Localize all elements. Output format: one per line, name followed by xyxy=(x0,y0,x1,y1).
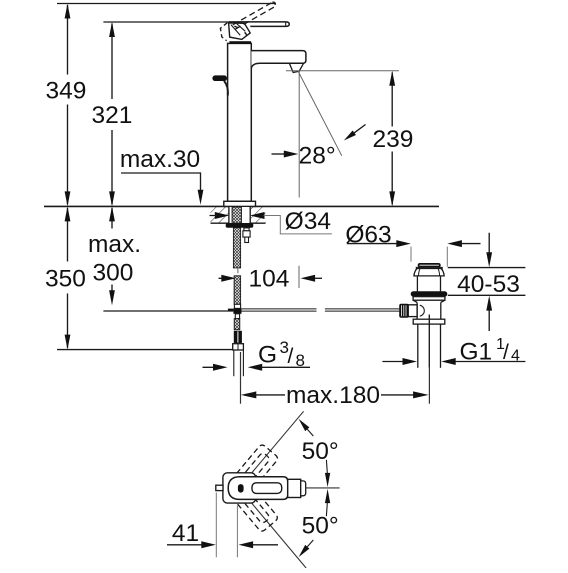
hose break centerline xyxy=(237,267,239,273)
raised socket dashed inner xyxy=(234,26,238,28)
pop-up rod left segment xyxy=(242,309,317,311)
raised socket dashed outline xyxy=(220,23,227,41)
svg-text:41: 41 xyxy=(172,520,199,547)
G38 arrows xyxy=(203,366,311,368)
ext line 239 top xyxy=(286,70,399,72)
supply pipe left wall xyxy=(233,350,235,376)
braided hose upper xyxy=(233,228,240,268)
dim 239 arrows xyxy=(389,71,395,207)
dim 104 right arrow xyxy=(314,277,322,279)
base plate xyxy=(224,201,256,206)
drain body right wall xyxy=(440,302,442,319)
drain inner rod xyxy=(428,315,430,368)
pivot housing xyxy=(408,305,417,317)
svg-text:max.30: max.30 xyxy=(120,146,200,173)
hose end block xyxy=(234,331,242,343)
stream diagonal line xyxy=(298,71,342,156)
braided hose middle xyxy=(234,276,241,305)
handle lever solid xyxy=(229,22,290,27)
angle 28 right arrow xyxy=(272,153,286,155)
spout beam xyxy=(251,51,306,68)
faucet body column xyxy=(228,43,252,201)
centerline bottom view xyxy=(306,487,340,489)
svg-text:300: 300 xyxy=(93,259,134,286)
stream vertical line xyxy=(298,72,300,289)
pivot ball arc xyxy=(420,305,425,316)
dia34 left arrow xyxy=(215,212,265,219)
diagonal 50deg upper xyxy=(239,411,304,488)
raised lever dashed top line xyxy=(233,2,272,25)
pull-rod knob xyxy=(212,75,227,81)
drain seal ring black xyxy=(411,291,448,296)
shank sleeve right line xyxy=(249,206,251,223)
angle 28 diag arrow xyxy=(354,125,365,133)
drain neck left wall xyxy=(416,276,418,292)
ext line 321 xyxy=(103,21,228,23)
drain flange taper right xyxy=(441,300,445,302)
countertop bottom line xyxy=(211,222,266,224)
shank threaded rod cross-hatch xyxy=(232,207,241,223)
countertop hatched section left xyxy=(211,207,229,223)
lever top view xyxy=(228,477,288,500)
braided hose lower xyxy=(234,319,240,330)
lower 50 arrow tail xyxy=(307,540,313,547)
lower 50 arrow at diagonal xyxy=(299,545,310,557)
dim 40-53 arrows xyxy=(486,252,492,310)
drain body left wall xyxy=(416,302,418,319)
dim 321 line xyxy=(111,24,113,205)
dim 40-53 ref lines xyxy=(448,268,526,296)
max30 underline xyxy=(121,173,201,190)
dim 41 line left xyxy=(167,544,202,546)
dashed lever rotated up xyxy=(223,443,279,503)
dia63 ext lines xyxy=(411,247,447,267)
lever tip cap line xyxy=(285,22,287,27)
countertop hatched section right xyxy=(250,207,265,223)
dia63 arrows xyxy=(396,240,462,247)
drain flange taper left xyxy=(413,300,417,302)
shank sleeve left line xyxy=(228,206,230,223)
dim 239 line xyxy=(391,73,393,205)
spout tip top view xyxy=(301,481,306,496)
svg-text:/: / xyxy=(288,345,294,368)
svg-text:4: 4 xyxy=(511,348,520,365)
base square xyxy=(223,473,256,503)
pull-rod curve xyxy=(224,81,228,96)
upper 50 arrow at centerline xyxy=(325,473,330,487)
spout block top view xyxy=(288,479,301,497)
aerator outlet xyxy=(289,63,303,72)
dia63 right tail xyxy=(459,243,480,245)
upper 50 arc tail xyxy=(325,460,328,473)
raised lever dashed tip cap xyxy=(272,2,275,7)
dim max300 arrows xyxy=(109,206,115,305)
shank sleeve backing xyxy=(229,207,250,223)
pop-up rod right segment xyxy=(325,309,400,311)
drain centerline extension xyxy=(428,368,430,404)
svg-text:/: / xyxy=(503,341,509,364)
drain cap lower band xyxy=(416,267,442,269)
joint black band xyxy=(229,41,251,44)
dashed lever rotated down xyxy=(223,473,279,533)
svg-text:Ø34: Ø34 xyxy=(285,208,331,235)
tailpipe coupling xyxy=(413,319,445,324)
G114 arrows xyxy=(382,361,525,363)
svg-text:40-53: 40-53 xyxy=(457,271,520,298)
ext line 350 bottom xyxy=(57,349,233,351)
dim 350 line xyxy=(67,208,69,348)
upper 50 arrow tail xyxy=(307,429,313,436)
supply pipe right wall xyxy=(242,350,244,376)
rod clamp lower xyxy=(235,314,239,319)
dia63 underline tail xyxy=(347,243,399,245)
tailpipe right wall xyxy=(440,324,442,368)
pull rod fitting bottom xyxy=(245,237,249,242)
dim 40-53 verticals xyxy=(488,233,490,331)
svg-text:50°: 50° xyxy=(302,512,339,539)
ext line max300 bottom xyxy=(103,310,233,312)
lever cutout xyxy=(252,483,282,494)
dim max300 line xyxy=(111,208,113,291)
svg-text:104: 104 xyxy=(249,266,290,293)
dim 349 line xyxy=(67,5,69,205)
pivot knob knurled xyxy=(399,304,409,318)
left stub xyxy=(216,485,223,490)
tailpipe left wall xyxy=(417,324,419,368)
dim 41 line right xyxy=(253,544,279,546)
pull rod fitting top xyxy=(244,228,249,231)
ext line top 349 xyxy=(57,3,276,5)
drain flange xyxy=(414,269,444,276)
drain neck right wall xyxy=(440,276,442,292)
svg-text:349: 349 xyxy=(46,77,87,104)
dia34 leader xyxy=(264,216,332,234)
svg-text:350: 350 xyxy=(45,265,86,292)
drain lower flange xyxy=(413,297,445,301)
dim 350 arrows xyxy=(65,206,71,349)
svg-text:321: 321 xyxy=(92,102,133,129)
supply nut divider xyxy=(237,344,239,350)
svg-text:G: G xyxy=(258,342,277,369)
upper 50 arrow at diagonal xyxy=(299,419,310,431)
rod clamp upper xyxy=(234,304,240,308)
svg-text:G1: G1 xyxy=(460,339,493,366)
dim max180 arrows xyxy=(255,394,416,396)
hose end block slot xyxy=(237,331,239,342)
raised socket dashed right arc xyxy=(245,32,247,37)
knob knurl lines xyxy=(402,305,406,316)
socket inner edge 2 xyxy=(237,24,246,32)
lever pivot dark spot xyxy=(238,484,244,493)
svg-text:239: 239 xyxy=(373,126,414,153)
mounting nut black band xyxy=(226,223,254,228)
svg-text:max.: max. xyxy=(88,231,141,258)
dim 41 ext lines xyxy=(216,493,237,558)
lower 50 arrow at centerline xyxy=(325,489,330,503)
svg-text:Ø63: Ø63 xyxy=(345,222,391,249)
socket inner edge 1 xyxy=(231,25,240,36)
handle socket solid xyxy=(229,23,251,40)
rod clamp black xyxy=(233,308,241,313)
dia34 arrow tails xyxy=(210,215,264,217)
lower 50 arc tail xyxy=(325,503,328,516)
svg-text:max.180: max.180 xyxy=(286,382,380,409)
max30 arrow xyxy=(198,190,204,205)
rod clamp pin left xyxy=(228,309,234,312)
svg-text:50°: 50° xyxy=(302,438,339,465)
svg-text:8: 8 xyxy=(296,351,305,370)
diagonal 50deg lower xyxy=(239,488,306,568)
dim 321 arrows xyxy=(109,22,115,206)
drain plug cap xyxy=(418,263,441,268)
supply nut xyxy=(233,344,244,350)
dim 349 arrows xyxy=(65,4,71,207)
svg-text:28°: 28° xyxy=(299,143,336,170)
dim 104 left arrow xyxy=(219,277,223,279)
faucet centerline lower xyxy=(240,352,242,404)
pull rod fitting mid xyxy=(243,231,250,237)
countertop top line xyxy=(44,205,439,207)
raised lever dashed bottom line xyxy=(235,7,274,30)
